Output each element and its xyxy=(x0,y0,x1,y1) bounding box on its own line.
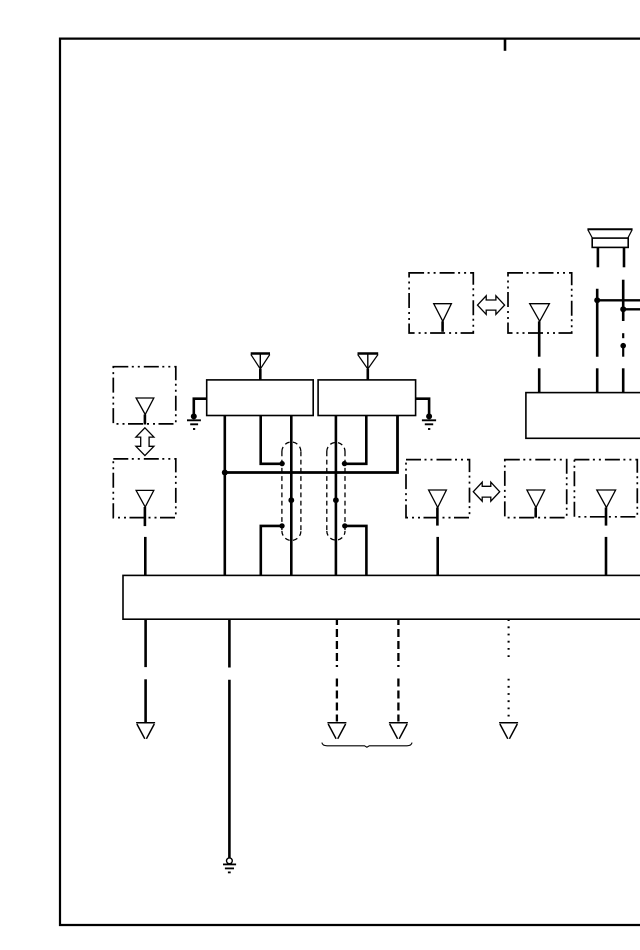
antenna 2 stem wire xyxy=(366,369,369,380)
body ground xyxy=(223,858,236,873)
speaker leg wire right xyxy=(623,247,626,267)
wire into amplifier xyxy=(596,368,599,392)
arrow out 3 xyxy=(327,723,346,739)
wire speaker-left down xyxy=(596,289,599,357)
connector box L2 xyxy=(113,459,176,518)
shield symbol in C xyxy=(597,490,616,508)
junction dot xyxy=(342,523,347,528)
wire bus out 3 (dashed) xyxy=(336,619,338,721)
bus wire horizontal xyxy=(225,416,398,473)
connector box T2 xyxy=(508,273,572,333)
amplifier unit (right, cut off) xyxy=(526,393,640,439)
connector box B xyxy=(505,460,567,518)
shield symbol in L1 xyxy=(136,398,154,415)
wire tuner2 center conductor xyxy=(335,416,338,576)
wire bus out 5 (dotted) xyxy=(508,619,510,721)
connector box T1 xyxy=(409,273,473,333)
double arrow xyxy=(473,482,499,501)
shield 1 bottom stub xyxy=(261,526,282,576)
wire bus out 4 (dashed) xyxy=(397,619,399,721)
arrow out 5 xyxy=(499,723,518,739)
shield 2 bottom stub xyxy=(345,526,367,576)
brace under arrows xyxy=(322,743,412,748)
shield symbol in T2 xyxy=(530,304,550,322)
shield symbol in B xyxy=(527,490,545,508)
shield symbol in T1 xyxy=(434,304,452,322)
junction dot xyxy=(342,461,347,466)
arrow out 1 xyxy=(136,723,155,739)
speaker leg wire left xyxy=(597,247,600,267)
wire into amplifier xyxy=(538,368,541,392)
double arrow vertical xyxy=(136,428,154,456)
antenna symbol 2 xyxy=(358,354,379,370)
arrow out 4 xyxy=(389,723,408,739)
dashed wire segment xyxy=(622,333,624,357)
shield symbol in A xyxy=(429,490,447,508)
antenna symbol 1 xyxy=(251,354,270,370)
junction dot xyxy=(594,297,600,303)
tuner unit 1 xyxy=(207,380,314,416)
junction dot xyxy=(222,470,228,476)
wire into amplifier xyxy=(622,368,625,392)
connector box L1 xyxy=(113,367,176,424)
wire to junction block xyxy=(144,537,147,576)
double arrow xyxy=(478,296,505,315)
connector box C xyxy=(574,460,637,517)
wire from L2 down xyxy=(144,507,147,526)
wire from C down xyxy=(605,508,608,526)
wire from C to junction block xyxy=(605,537,608,576)
wire tuner2 shield stub xyxy=(345,416,367,464)
junction dot xyxy=(620,306,626,312)
wire from T2 down xyxy=(538,321,541,356)
wire speaker-right down xyxy=(622,280,625,321)
shielded cable 1 xyxy=(282,442,301,540)
junction dot xyxy=(279,461,284,466)
connector box A xyxy=(406,460,470,518)
shielded cable 2 xyxy=(327,442,345,540)
wire tuner1 shield stub xyxy=(261,416,282,464)
shield symbol in L2 xyxy=(136,490,154,507)
wire bus out 1 xyxy=(144,619,147,722)
wire to right edge xyxy=(597,299,640,301)
wire bus out 2 xyxy=(228,619,231,858)
tuner unit 2 xyxy=(318,380,416,416)
junction block (bottom bus) xyxy=(123,575,640,619)
junction dot xyxy=(620,343,626,349)
speaker SP xyxy=(587,229,632,247)
wire to right edge xyxy=(623,308,640,310)
wire tuner1 center conductor xyxy=(290,416,293,576)
ground left xyxy=(187,399,207,429)
wire tuner1 pin1 down xyxy=(224,416,227,576)
wire from A to junction block xyxy=(436,537,439,576)
frame tick mark xyxy=(504,39,507,51)
antenna 1 stem wire xyxy=(259,369,262,380)
ground right xyxy=(416,399,437,429)
junction dot xyxy=(288,497,294,503)
junction dot xyxy=(333,497,339,503)
junction dot xyxy=(279,523,284,528)
